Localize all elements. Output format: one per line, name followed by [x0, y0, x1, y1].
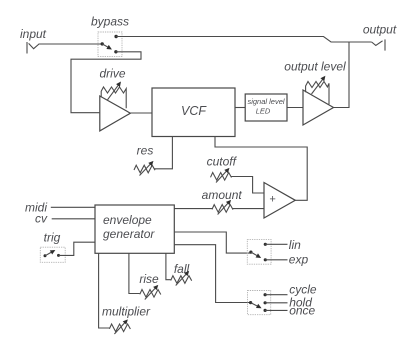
potentiometer output level: [306, 77, 329, 105]
potentiometer fall: [171, 272, 192, 286]
potentiometer res: [134, 162, 155, 176]
svg-text:envelope: envelope: [103, 213, 152, 227]
svg-text:+: +: [269, 194, 276, 206]
svg-text:output: output: [363, 23, 397, 37]
wire LED to output level amp: [287, 107, 304, 109]
potentiometer drive: [101, 83, 126, 109]
svg-text:rise: rise: [139, 272, 159, 286]
potentiometer multiplier: [109, 320, 130, 334]
svg-text:LED: LED: [256, 107, 271, 116]
svg-text:generator: generator: [103, 227, 155, 241]
wire cycle: [265, 294, 287, 296]
switch cycle/hold/once SW4: [248, 291, 271, 315]
svg-text:multiplier: multiplier: [102, 305, 151, 319]
op-amp drive A1: [100, 96, 131, 131]
wire input to bypass common: [39, 43, 103, 45]
svg-text:fall: fall: [174, 262, 190, 276]
switch bypass SW1: [98, 32, 122, 56]
wire exp: [265, 259, 287, 261]
wire midi: [51, 206, 95, 208]
svg-text:cutoff: cutoff: [207, 155, 238, 169]
box VCF U1: [152, 88, 235, 137]
wire envelope to lin/exp switch: [174, 232, 250, 253]
input jack J1: [27, 42, 39, 54]
potentiometer amount: [212, 201, 233, 215]
wire cutoff to adder: [231, 177, 264, 194]
op-amp output level A2: [303, 90, 334, 125]
wire envelope to cycle switch: [174, 245, 250, 303]
svg-text:amount: amount: [202, 188, 243, 202]
svg-text:bypass: bypass: [91, 15, 129, 29]
wire hold: [265, 302, 287, 304]
output jack J2: [372, 39, 385, 50]
svg-text:VCF: VCF: [181, 104, 207, 118]
wire VCF to signal level LED: [235, 107, 246, 109]
svg-text:trig: trig: [44, 231, 61, 245]
wire envelope to multiplier pot: [99, 253, 110, 328]
box envelope generator U3: [95, 205, 174, 253]
switch lin/exp SW3: [247, 240, 271, 265]
svg-text:cv: cv: [35, 212, 48, 226]
wire lin: [265, 243, 287, 245]
svg-text:once: once: [289, 303, 315, 317]
wire res to VCF bottom: [155, 136, 173, 169]
svg-text:signal level: signal level: [247, 97, 284, 106]
wire bypass top contact to output: [116, 37, 372, 43]
box signal level LED D1: [245, 94, 287, 121]
wire drive to VCF: [130, 112, 152, 114]
wire VCF cv return from adder: [215, 136, 307, 200]
wire cv: [52, 218, 95, 220]
svg-text:exp: exp: [289, 253, 309, 267]
wire junction output level to output line: [334, 42, 350, 108]
wire amount pot to adder: [232, 208, 263, 210]
wire trig to envelope: [59, 242, 96, 255]
svg-text:res: res: [137, 144, 154, 158]
potentiometer rise: [140, 286, 161, 300]
wire envelope to amount pot: [174, 208, 213, 210]
wire once: [265, 309, 287, 311]
wire bypass bottom contact to drive amp: [71, 52, 141, 113]
switch trig SW2: [40, 247, 65, 262]
svg-text:drive: drive: [99, 67, 125, 81]
svg-text:output level: output level: [284, 60, 346, 74]
op-amp adder U2: [264, 183, 295, 219]
potentiometer cutoff: [211, 169, 232, 183]
wire envelope to rise pot: [129, 253, 140, 293]
svg-text:lin: lin: [289, 238, 301, 252]
svg-text:input: input: [20, 27, 47, 41]
wire envelope to fall pot: [166, 253, 171, 279]
